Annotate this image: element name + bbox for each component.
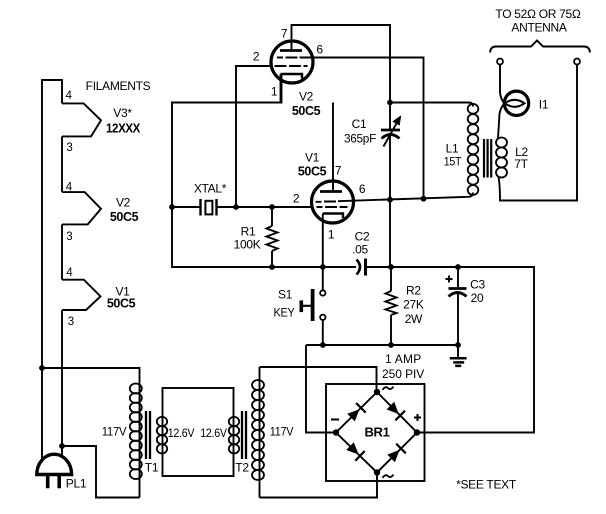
svg-text:1: 1	[271, 85, 278, 99]
svg-text:ANTENNA: ANTENNA	[511, 21, 567, 35]
svg-text:V1: V1	[305, 151, 320, 165]
svg-text:PL1: PL1	[66, 477, 87, 491]
svg-text:50C5: 50C5	[298, 165, 327, 179]
svg-text:365pF: 365pF	[344, 132, 376, 146]
svg-text:C1: C1	[352, 117, 367, 131]
svg-text:R2: R2	[406, 283, 421, 297]
svg-text:R1: R1	[241, 225, 256, 239]
svg-text:117V: 117V	[270, 425, 294, 439]
svg-text:BR1: BR1	[364, 425, 389, 440]
svg-text:2W: 2W	[405, 312, 423, 326]
svg-text:4: 4	[66, 267, 73, 279]
svg-text:12.6V: 12.6V	[200, 426, 227, 440]
svg-text:7: 7	[281, 27, 288, 41]
svg-text:12.6V: 12.6V	[168, 426, 195, 440]
svg-text:V2: V2	[299, 90, 314, 104]
svg-text:6: 6	[359, 182, 366, 196]
svg-text:4: 4	[65, 90, 72, 102]
svg-text:3: 3	[68, 316, 74, 328]
svg-text:1: 1	[328, 228, 335, 242]
svg-text:V2: V2	[116, 196, 131, 210]
svg-text:3: 3	[66, 142, 72, 154]
svg-text:C2: C2	[355, 230, 370, 244]
svg-text:.05: .05	[352, 243, 368, 257]
svg-text:7T: 7T	[514, 157, 528, 171]
svg-text:T1: T1	[145, 461, 159, 475]
svg-text:117V: 117V	[102, 425, 127, 439]
svg-text:T2: T2	[235, 461, 249, 475]
svg-text:C3: C3	[470, 278, 485, 292]
svg-text:20: 20	[471, 291, 484, 305]
svg-text:*SEE TEXT: *SEE TEXT	[456, 478, 517, 492]
svg-text:50C5: 50C5	[110, 210, 139, 224]
svg-text:FILAMENTS: FILAMENTS	[86, 79, 151, 93]
svg-text:I1: I1	[539, 98, 549, 112]
svg-text:250 PIV: 250 PIV	[382, 367, 424, 381]
svg-text:L1: L1	[446, 142, 459, 156]
svg-text:TO 52Ω OR 75Ω: TO 52Ω OR 75Ω	[495, 7, 581, 21]
svg-text:4: 4	[66, 182, 73, 194]
svg-text:2: 2	[293, 192, 300, 206]
svg-text:100K: 100K	[234, 238, 261, 252]
svg-text:2: 2	[253, 50, 260, 64]
svg-text:S1: S1	[278, 288, 293, 302]
svg-text:50C5: 50C5	[107, 297, 136, 311]
svg-text:50C5: 50C5	[292, 104, 321, 118]
svg-text:6: 6	[316, 43, 323, 57]
svg-text:3: 3	[66, 231, 72, 243]
svg-text:XTAL*: XTAL*	[194, 182, 227, 196]
svg-text:V3*: V3*	[113, 106, 132, 120]
svg-text:15T: 15T	[444, 155, 462, 169]
svg-text:7: 7	[335, 164, 342, 178]
svg-text:KEY: KEY	[274, 306, 295, 320]
svg-text:27K: 27K	[403, 298, 424, 312]
svg-text:12XXX: 12XXX	[106, 122, 141, 136]
svg-text:1 AMP: 1 AMP	[385, 352, 421, 366]
